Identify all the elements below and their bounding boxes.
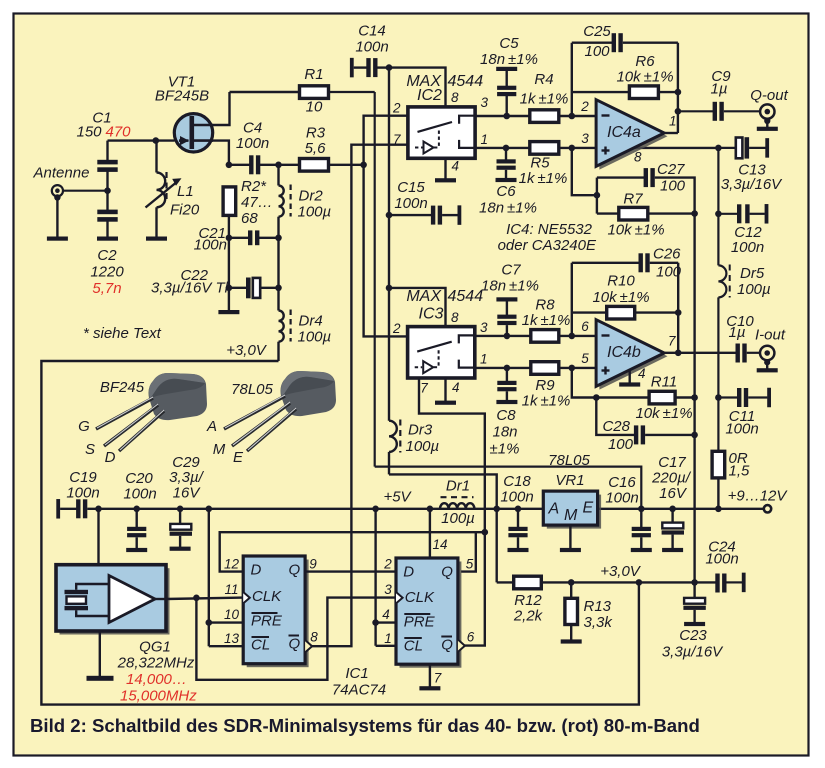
node C21 left dot xyxy=(226,235,233,242)
svg-text:C15: C15 xyxy=(397,179,425,196)
node R7 right dot xyxy=(691,210,698,217)
svg-text:8: 8 xyxy=(310,630,318,645)
wire FF2 ground stub xyxy=(429,664,431,687)
resistor R1 xyxy=(300,86,329,99)
label 14,000... 15,000MHz red xyxy=(120,671,197,705)
capacitor C14 xyxy=(366,58,377,77)
resistor R4 xyxy=(530,110,559,123)
wire R1 line xyxy=(230,91,302,93)
wire IC3 pin3 line xyxy=(475,335,531,337)
ground IC4b xyxy=(619,382,640,386)
svg-text:C16: C16 xyxy=(608,474,636,491)
svg-text:47…: 47… xyxy=(241,194,273,211)
svg-text:1: 1 xyxy=(669,114,677,129)
op-amp IC4b xyxy=(596,320,667,390)
label C4 100n xyxy=(236,120,269,153)
node C9 dot xyxy=(675,108,682,115)
node RF junction dot xyxy=(360,162,367,169)
label Dr5 100u xyxy=(737,265,771,298)
wire IC4b output riser xyxy=(677,263,679,353)
svg-text:2,2k: 2,2k xyxy=(513,608,544,625)
node C22 left dot xyxy=(226,285,233,292)
wire R12 right xyxy=(541,581,571,583)
wire FF2 Q riser xyxy=(461,532,476,571)
node QG1 top dot xyxy=(95,506,102,513)
label C25 100 xyxy=(583,23,611,60)
wire R5 to IC4a plus and supply line to C13 node xyxy=(559,147,719,149)
svg-text:BF245: BF245 xyxy=(100,379,145,396)
svg-text:100n: 100n xyxy=(66,485,99,502)
ground QG1 xyxy=(87,676,114,681)
capacitor C7 xyxy=(496,297,517,336)
wire C2 bottom xyxy=(106,221,108,238)
wire antenna down xyxy=(56,196,58,238)
capacitor C22 electrolytic xyxy=(246,278,260,299)
svg-text:S: S xyxy=(85,441,95,458)
node C7 dot xyxy=(504,333,511,340)
label C21 100n xyxy=(194,225,227,254)
wire C26 line left xyxy=(572,262,639,264)
svg-text:R6: R6 xyxy=(635,53,655,70)
node IC4a pin2 dot xyxy=(569,113,576,120)
label R4 1k+-1% xyxy=(520,71,569,108)
svg-text:5,6: 5,6 xyxy=(305,140,327,157)
label C27 100 xyxy=(657,161,686,195)
capacitor C20 xyxy=(126,509,147,552)
label C1 150 470 xyxy=(76,110,131,141)
wire C27 line right xyxy=(655,178,695,214)
node C13 supply dot xyxy=(715,145,722,152)
label IC4 NE5532 oder CA3240E xyxy=(498,221,597,254)
ground IC3 xyxy=(435,401,456,405)
label R9 1k+-1% xyxy=(522,377,571,410)
wire mixer rail vertical xyxy=(388,68,390,421)
svg-text:MAX: MAX xyxy=(406,288,442,305)
wire QG1 ground xyxy=(99,631,101,677)
capacitor C25 xyxy=(612,33,623,52)
label C10 1u xyxy=(726,313,754,341)
wire R8 to IC4b xyxy=(559,335,597,337)
svg-text:C14: C14 xyxy=(358,23,386,40)
label C17 220u/ 16V xyxy=(651,454,692,502)
svg-text:13: 13 xyxy=(224,631,240,646)
svg-text:R10: R10 xyxy=(607,273,635,290)
node C12 dot xyxy=(715,211,722,218)
svg-text:4544: 4544 xyxy=(448,288,484,305)
svg-text:4: 4 xyxy=(382,607,390,622)
svg-text:18n ±1%: 18n ±1% xyxy=(480,51,538,68)
capacitor C21 xyxy=(248,230,259,245)
svg-text:7: 7 xyxy=(434,671,442,686)
node R7/C27 left dot xyxy=(594,192,601,199)
svg-text:L1: L1 xyxy=(177,183,194,200)
label Dr2 100u xyxy=(298,188,332,221)
node Dr2 top junction dot xyxy=(275,162,282,169)
svg-text:IC3: IC3 xyxy=(419,306,444,323)
wire C9 to Q-out xyxy=(724,110,761,112)
svg-text:Q: Q xyxy=(289,562,301,579)
wire C25 line left xyxy=(572,42,613,44)
svg-text:CLK: CLK xyxy=(405,589,435,606)
svg-text:C4: C4 xyxy=(243,120,262,137)
capacitor C6 xyxy=(496,148,517,182)
svg-text:5,7n: 5,7n xyxy=(92,280,121,297)
node R10 output dot xyxy=(675,309,682,316)
svg-text:1220: 1220 xyxy=(90,264,124,281)
capacitor C12 xyxy=(718,204,768,224)
svg-text:6: 6 xyxy=(581,319,589,334)
svg-text:8: 8 xyxy=(634,150,642,165)
wire FF1 Q to FF2 D xyxy=(305,570,396,572)
node +5V FF2 riser dot xyxy=(372,506,379,513)
svg-text:100n: 100n xyxy=(355,39,388,56)
svg-text:3,3µ/16V: 3,3µ/16V xyxy=(662,644,724,661)
label R2* 47... 68 xyxy=(241,178,273,227)
svg-text:* siehe Text: * siehe Text xyxy=(83,325,162,342)
ground IC2 xyxy=(435,178,456,182)
node C28 right dot xyxy=(691,432,698,439)
wire C15 right stub xyxy=(442,214,458,216)
svg-text:3: 3 xyxy=(481,95,489,110)
wire R1 right to drain feed riser xyxy=(329,91,375,93)
label C15 100n xyxy=(394,179,427,212)
inductor Dr4 xyxy=(279,288,291,361)
node 0R bottom dot xyxy=(715,506,722,513)
svg-text:10: 10 xyxy=(224,607,240,622)
svg-text:R9: R9 xyxy=(535,377,555,394)
wire control line IC3 pin7 xyxy=(419,378,485,646)
svg-text:Q: Q xyxy=(441,564,453,581)
wire FF2 pin14 riser xyxy=(429,509,431,558)
svg-text:+5V: +5V xyxy=(383,489,412,506)
label MAX 4544 IC3 xyxy=(406,288,483,323)
svg-text:PRE: PRE xyxy=(404,614,436,631)
wire C4 right to R3 xyxy=(260,164,302,166)
wire IC4a feedback riser xyxy=(571,43,573,116)
label C5 18n +-1% xyxy=(480,35,538,68)
wire C28 line right xyxy=(645,434,695,436)
svg-text:1: 1 xyxy=(384,631,392,646)
wire Dr3 bottom to +5V xyxy=(389,474,497,582)
svg-text:100µ: 100µ xyxy=(298,204,332,221)
svg-text:IC2: IC2 xyxy=(417,87,442,104)
wire R11 line right xyxy=(675,396,695,398)
inductor L1 variable xyxy=(146,172,182,208)
svg-text:1: 1 xyxy=(481,132,489,147)
capacitor C24 xyxy=(715,573,745,593)
resistor R7 xyxy=(619,207,648,220)
label C6 18n+-1% xyxy=(479,183,537,217)
node L1 junction dot xyxy=(153,137,160,144)
wire VT1 source down to C4 node xyxy=(211,141,229,166)
wire L1 bottom xyxy=(155,207,157,237)
node IC4a pin3 dot xyxy=(569,145,576,152)
wire C1 top xyxy=(106,141,108,161)
connector +9...12V xyxy=(764,505,771,512)
svg-text:3,3k: 3,3k xyxy=(584,614,614,631)
ground under antenna xyxy=(47,237,68,241)
label C8 18n +-1% xyxy=(490,407,520,458)
svg-text:R1: R1 xyxy=(304,66,323,83)
wire bias riser IC4b xyxy=(572,368,597,398)
svg-text:14,000…: 14,000… xyxy=(126,671,187,688)
wire R12 feed down xyxy=(497,581,515,583)
resistor R5 xyxy=(530,142,559,155)
svg-text:+3,0V: +3,0V xyxy=(600,563,642,580)
svg-text:A: A xyxy=(548,501,560,518)
svg-text:D: D xyxy=(251,562,262,579)
svg-text:100: 100 xyxy=(660,178,686,195)
svg-text:16V: 16V xyxy=(659,485,688,502)
node C8 dot xyxy=(504,365,511,372)
wire Dr2/C22 link xyxy=(277,238,279,288)
label R7 10k+-1% xyxy=(607,191,664,239)
svg-text:VR1: VR1 xyxy=(555,472,584,489)
wire +5V line xyxy=(87,508,543,510)
svg-text:3,3µ/: 3,3µ/ xyxy=(169,469,204,486)
op-amp IC4a xyxy=(596,100,667,170)
svg-text:74AC74: 74AC74 xyxy=(332,682,386,699)
wire C9 line xyxy=(678,110,713,112)
capacitor C9 xyxy=(713,102,724,121)
wire clock under-route xyxy=(196,598,395,680)
svg-text:A: A xyxy=(206,418,217,435)
node C20 dot xyxy=(133,506,140,513)
resistor R13 vertical xyxy=(561,582,582,643)
oscillator QG1 xyxy=(56,565,170,635)
wire QG1 supply riser xyxy=(97,509,99,565)
svg-text:Dr5: Dr5 xyxy=(740,265,765,282)
svg-text:1µ: 1µ xyxy=(711,81,728,98)
node C17 dot xyxy=(669,506,676,513)
svg-text:4: 4 xyxy=(452,380,460,395)
node bias rail bottom dot xyxy=(691,579,698,586)
wire IC4b feedback riser xyxy=(571,263,573,336)
svg-text:1µ: 1µ xyxy=(729,324,746,341)
svg-text:±1%: ±1% xyxy=(490,441,520,458)
node C22 right dot xyxy=(275,285,282,292)
wire C26 line right xyxy=(650,262,679,264)
label R8 1k+-1% xyxy=(522,297,571,330)
label C14 100n xyxy=(355,23,388,56)
node IC4b pin5 dot xyxy=(569,365,576,372)
label L1 Fi20 xyxy=(170,183,200,219)
svg-text:R4: R4 xyxy=(534,71,553,88)
label C24 100n xyxy=(705,539,738,568)
svg-text:3: 3 xyxy=(384,582,392,597)
label C13 3,3u/16V xyxy=(721,162,783,194)
svg-text:7: 7 xyxy=(420,381,428,396)
svg-text:R8: R8 xyxy=(535,297,555,314)
svg-text:6: 6 xyxy=(467,630,475,645)
svg-text:100n: 100n xyxy=(725,421,758,438)
svg-text:I-out: I-out xyxy=(755,327,786,344)
wire drain feed horizontal xyxy=(375,467,642,509)
wire FF1 PRE stub xyxy=(209,621,244,623)
node R11/C28 left dot xyxy=(593,394,600,401)
svg-text:16V: 16V xyxy=(173,485,202,502)
capacitor C19 xyxy=(76,499,87,518)
wire C25 line right xyxy=(623,42,678,44)
wire RF riser to mixers xyxy=(364,116,408,337)
svg-text:1: 1 xyxy=(480,352,488,367)
wire C22 right stub xyxy=(261,287,279,289)
label MAX 4544 IC2 xyxy=(406,73,483,104)
capacitor C13 electrolytic xyxy=(718,137,769,158)
svg-text:100n: 100n xyxy=(236,135,269,152)
svg-text:100n: 100n xyxy=(394,195,427,212)
svg-text:CL: CL xyxy=(251,637,270,654)
capacitor C10 xyxy=(736,344,747,363)
wire R10 line left xyxy=(572,311,608,313)
capacitor C4 xyxy=(249,155,260,174)
wire IC2 pin4 xyxy=(444,158,446,179)
svg-text:100n: 100n xyxy=(705,551,738,568)
wire bias riser IC4a xyxy=(572,148,597,195)
svg-text:R7: R7 xyxy=(623,191,643,208)
node IC3 supply dot xyxy=(386,285,393,292)
label C2 1220 5,7n xyxy=(90,247,124,297)
label VT1 BF245B xyxy=(155,74,209,105)
svg-text:10k ±1%: 10k ±1% xyxy=(616,69,673,86)
node C29 dot xyxy=(177,506,184,513)
wire VT1 drain up to R1 line xyxy=(211,92,230,125)
svg-text:D: D xyxy=(403,564,414,581)
wire FF1 D loop xyxy=(220,532,485,571)
svg-text:Dr1: Dr1 xyxy=(446,478,470,495)
svg-text:2: 2 xyxy=(392,321,401,336)
wire C14 stub xyxy=(354,66,367,68)
node R6 output dot xyxy=(675,89,682,96)
node FF2 PRE dot xyxy=(372,619,379,626)
wire C1 bottom to C2 xyxy=(106,171,108,210)
svg-text:IC4b: IC4b xyxy=(607,344,641,361)
resistor R2 vertical xyxy=(223,187,236,216)
node output dot xyxy=(675,350,682,357)
svg-text:Fi20: Fi20 xyxy=(170,202,200,219)
node QG1 output dot xyxy=(193,595,200,602)
capacitor C1 xyxy=(97,160,117,172)
svg-text:R3: R3 xyxy=(306,125,326,142)
wire IC3 pin1 line xyxy=(475,367,531,369)
ground bar left of C14 xyxy=(350,58,354,78)
svg-text:10k ±1%: 10k ±1% xyxy=(592,289,649,306)
svg-text:68: 68 xyxy=(241,210,258,227)
svg-text:CL: CL xyxy=(404,638,423,655)
svg-text:9: 9 xyxy=(309,557,317,572)
svg-text:470: 470 xyxy=(106,124,132,141)
svg-text:C18: C18 xyxy=(503,473,531,490)
label Dr3 100u xyxy=(406,422,440,456)
resistor R9 xyxy=(531,362,559,375)
label R10 10k+-1% xyxy=(592,273,649,307)
node FF1 PRE dot xyxy=(206,619,213,626)
wire op-amp supply vertical upper xyxy=(717,148,719,266)
label IC1 74AC74 xyxy=(332,665,386,699)
wire IC4a output riser xyxy=(677,43,679,133)
svg-text:IC4: NE5532: IC4: NE5532 xyxy=(506,221,593,238)
wire R6 line left xyxy=(572,91,630,93)
resistor R8 xyxy=(531,330,559,343)
svg-text:100n: 100n xyxy=(500,489,533,506)
wire C21 right stub xyxy=(259,237,279,239)
svg-text:R2*: R2* xyxy=(241,178,267,195)
wire C14 to rail xyxy=(378,66,390,68)
capacitor C28 xyxy=(634,425,645,444)
node FF2 pin14 riser dot xyxy=(427,506,434,513)
wire R7 line right xyxy=(648,212,695,214)
node C5 dot xyxy=(503,113,510,120)
node C16 dot xyxy=(638,506,645,513)
svg-text:10: 10 xyxy=(306,99,323,116)
svg-text:R5: R5 xyxy=(530,155,550,172)
wire R10 line right xyxy=(635,311,679,313)
wire C22 left stub xyxy=(229,287,247,289)
wire R9 to IC4b plus xyxy=(559,367,597,369)
svg-text:PRE: PRE xyxy=(251,613,283,630)
wire C28 branch riser xyxy=(596,398,634,435)
svg-text:Bild 2: Schaltbild des SDR-Min: Bild 2: Schaltbild des SDR-Minimalsystem… xyxy=(30,715,700,736)
svg-text:100n: 100n xyxy=(605,490,638,507)
svg-text:CLK: CLK xyxy=(252,588,282,605)
node +3V divider dot xyxy=(568,579,575,586)
svg-text:10k ±1%: 10k ±1% xyxy=(635,405,692,422)
flip-flop FF1 xyxy=(243,556,312,667)
capacitor C29 electrolytic xyxy=(170,509,192,551)
label R5 1k+-1% xyxy=(519,155,568,188)
inductor Dr3 xyxy=(389,420,400,475)
resistor R10 xyxy=(607,306,635,319)
node IC4b pin6 dot xyxy=(569,333,576,340)
capacitor C18 xyxy=(508,509,529,552)
wire C15 stub xyxy=(389,214,432,216)
svg-text:1k ±1%: 1k ±1% xyxy=(520,91,569,108)
svg-text:1k ±1%: 1k ±1% xyxy=(522,393,571,410)
svg-text:100: 100 xyxy=(608,436,634,453)
svg-text:M: M xyxy=(564,507,578,524)
label R13 3,3k xyxy=(584,598,614,631)
svg-text:11: 11 xyxy=(224,582,238,597)
capacitor C5 xyxy=(496,67,517,116)
wire R6 line right xyxy=(658,91,678,93)
wire R7C27 left riser xyxy=(596,178,598,214)
wire R4 to IC4a xyxy=(559,115,597,117)
svg-text:8: 8 xyxy=(451,90,459,105)
wire IC4b output line xyxy=(662,352,737,354)
flip-flop FF2 xyxy=(396,558,465,668)
connector I-out xyxy=(757,346,778,373)
wire FF1 PRE/CL riser xyxy=(208,509,210,646)
svg-text:C5: C5 xyxy=(499,35,519,52)
capacitor C26 xyxy=(639,253,650,272)
svg-text:100n: 100n xyxy=(123,486,156,503)
node C21 right dot xyxy=(275,235,282,242)
svg-text:Dr2: Dr2 xyxy=(299,188,324,205)
regulator package 78L05 drawing xyxy=(224,371,336,451)
node cross-couple dot xyxy=(482,529,489,536)
label Dr4 100u xyxy=(298,313,332,346)
wire VR1 output line segment E xyxy=(598,508,764,510)
label 0R 1,5 xyxy=(729,450,751,480)
svg-text:C19: C19 xyxy=(69,469,97,486)
svg-text:C8: C8 xyxy=(496,407,516,424)
svg-text:3,3µ/16V: 3,3µ/16V xyxy=(721,176,783,193)
wire apex to riser xyxy=(663,132,678,134)
svg-text:oder CA3240E: oder CA3240E xyxy=(498,237,597,254)
svg-text:IC4a: IC4a xyxy=(607,124,641,141)
svg-text:100: 100 xyxy=(584,43,610,60)
node C11 dot xyxy=(715,394,722,401)
